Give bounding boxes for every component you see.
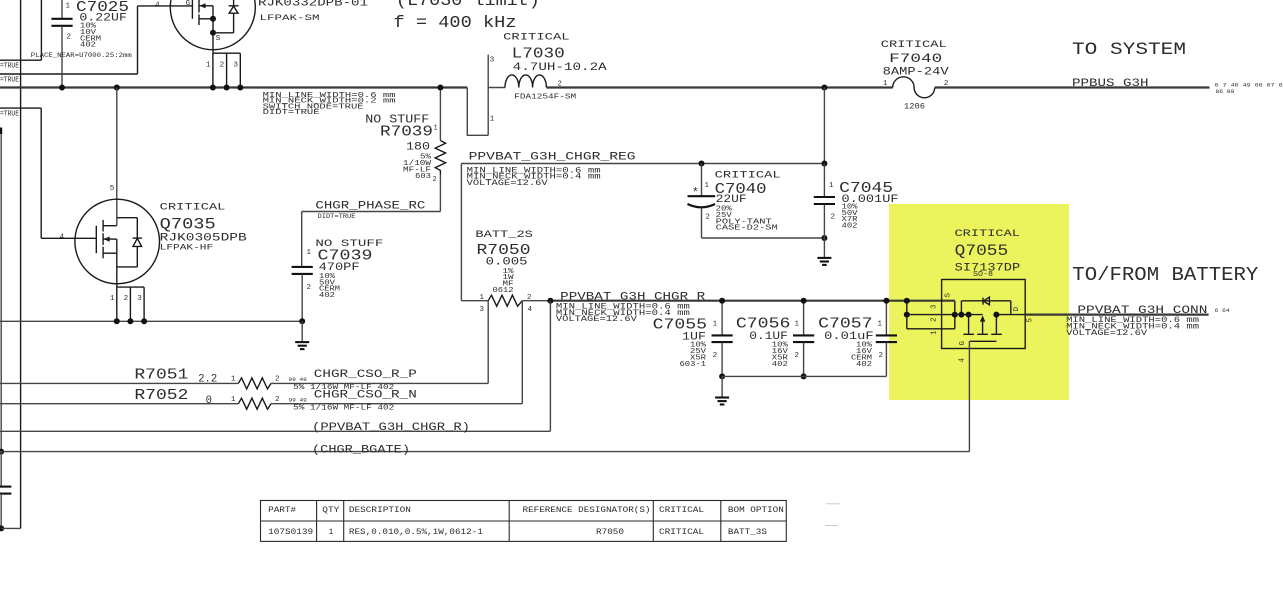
svg-text:CRITICAL: CRITICAL [659, 528, 704, 537]
Q7030 channel bar [198, 0, 200, 13]
junction dot C7056-bottom [801, 373, 807, 379]
junction dot diode-branch [958, 312, 964, 318]
Q7055 source bus [955, 314, 983, 316]
long vertical wire from top edge [20, 0, 22, 528]
wire PPBUS_G3H [935, 86, 1210, 88]
svg-text:PPVBAT_G3H_CHGR_REG: PPVBAT_G3H_CHGR_REG [469, 152, 636, 164]
svg-text:1: 1 [829, 182, 834, 190]
fuse F7040 [893, 77, 935, 98]
svg-text:Q7035: Q7035 [160, 216, 216, 234]
svg-text:CASE-D2-SM: CASE-D2-SM [716, 225, 779, 233]
svg-text:R7039: R7039 [380, 123, 433, 140]
junction dot Q7030 pin3 [237, 85, 243, 91]
Q7035 body stub with arrow [103, 238, 117, 240]
svg-text:Q7055: Q7055 [955, 242, 1009, 260]
wire (CHGR_BGATE) [0, 451, 969, 453]
junction dot C7040-REG [699, 161, 705, 167]
ghost mark 1 [826, 503, 840, 505]
svg-text:CRITICAL: CRITICAL [955, 228, 1021, 239]
Q7030 source vertical [212, 6, 214, 53]
L7030 coil [505, 75, 546, 88]
capacitor (clipped at left edge) [0, 452, 2, 487]
off-page stub (=TRUE tag 3) to Q7035 gate [0, 107, 41, 109]
capacitor C7025 [61, 0, 63, 18]
svg-text:3: 3 [137, 295, 142, 303]
wire PPVBAT_G3H_CHGR_REG [823, 88, 825, 164]
svg-text:PPBUS_G3H: PPBUS_G3H [1072, 78, 1149, 90]
Q7035 gate bar [95, 226, 97, 254]
Q7055 channel bar [963, 333, 974, 335]
Q7055 body box [942, 280, 1026, 349]
svg-text:402: 402 [319, 292, 335, 300]
junction dot Q7055 pin2 [904, 312, 910, 318]
svg-text:BOM OPTION: BOM OPTION [728, 506, 784, 515]
svg-text:2: 2 [275, 396, 280, 404]
Q7055 gate bar [970, 340, 997, 342]
svg-text:4: 4 [155, 1, 160, 9]
table frame [261, 501, 787, 542]
svg-text:4: 4 [60, 233, 65, 241]
capacitor C7055 [721, 301, 723, 335]
svg-text:D: D [1013, 307, 1021, 312]
svg-text:G: G [959, 341, 967, 346]
svg-text:LFPAK-SM: LFPAK-SM [260, 13, 320, 23]
svg-text:2: 2 [931, 317, 939, 322]
svg-text:2: 2 [527, 294, 532, 302]
svg-text:1: 1 [931, 330, 939, 335]
svg-text:CRITICAL: CRITICAL [160, 202, 226, 213]
svg-text:2: 2 [706, 213, 711, 221]
wire PPVBAT_G3H_CHGR_R [550, 300, 954, 302]
off-page connector fragment [0, 128, 2, 135]
svg-text:402: 402 [842, 223, 858, 231]
Q7055 mosfet stubs [968, 315, 970, 334]
svg-text:5% 1/16W MF-LF 402: 5% 1/16W MF-LF 402 [293, 404, 394, 412]
svg-text:2: 2 [433, 176, 437, 184]
svg-text:0612: 0612 [493, 287, 514, 295]
junction dot Q7035 pin1 [114, 318, 120, 324]
wire PPVBAT_G3H_CONN [1025, 314, 1208, 316]
svg-text:1: 1 [878, 320, 883, 328]
Q7055 drain wire [996, 314, 1025, 316]
svg-text:2: 2 [124, 295, 129, 303]
svg-text:DIDT=TRUE: DIDT=TRUE [263, 109, 321, 117]
svg-text:LFPAK-HF: LFPAK-HF [160, 245, 214, 253]
capacitor C7045 [823, 164, 825, 197]
junction dot C7055-top [719, 298, 725, 304]
junction dot C7025-bus [59, 85, 65, 91]
Q7055 body arrow [980, 315, 985, 321]
svg-text:f = 400 kHz: f = 400 kHz [394, 14, 517, 33]
svg-text:CHGR_CSO_R_P: CHGR_CSO_R_P [314, 369, 417, 381]
svg-text:F7040: F7040 [889, 51, 942, 66]
svg-text:VOLTAGE=12.6V: VOLTAGE=12.6V [556, 315, 637, 324]
svg-text:CHGR_CSO_R_N: CHGR_CSO_R_N [314, 390, 417, 402]
svg-text:2: 2 [831, 213, 836, 221]
capacitor C7039 [292, 266, 313, 268]
wire bus to Q7035 drain [116, 88, 118, 226]
svg-text:PART#: PART# [268, 506, 296, 515]
capacitor C7040 (polarized) [701, 164, 703, 196]
svg-text:S: S [945, 293, 953, 298]
svg-text:=TRUE: =TRUE [0, 77, 19, 85]
Q7035 source stub [103, 252, 117, 254]
wire PPBUS to fuse [546, 86, 892, 88]
svg-text:1: 1 [795, 320, 800, 328]
svg-text:CRITICAL: CRITICAL [881, 39, 947, 50]
svg-text:RES,0.010,0.5%,1W,0612-1: RES,0.010,0.5%,1W,0612-1 [349, 528, 483, 537]
svg-text:99 49: 99 49 [289, 376, 307, 383]
svg-text:TO/FROM BATTERY: TO/FROM BATTERY [1072, 264, 1259, 286]
svg-text:(PPVBAT_G3H_CHGR_R): (PPVBAT_G3H_CHGR_R) [312, 422, 470, 434]
svg-text:402: 402 [856, 361, 872, 369]
transistor Q7035 circle [75, 199, 160, 284]
capacitor C7056 [803, 301, 805, 335]
wire CHGR_BGATE stub from connector [0, 134, 2, 452]
svg-text:86 89: 86 89 [1216, 89, 1235, 95]
Q7030 junction dot diode [210, 30, 216, 36]
wire (PPVBAT_G3H_CHGR_R) [0, 430, 550, 432]
svg-text:R7051: R7051 [134, 367, 188, 384]
svg-text:0: 0 [206, 395, 212, 407]
R7050 pin4 lead [521, 301, 523, 404]
svg-text:6 64: 6 64 [1215, 308, 1230, 314]
svg-text:S: S [216, 35, 221, 43]
svg-text:RJK0332DPB-01: RJK0332DPB-01 [258, 0, 368, 9]
junction dot Q7035 pin3 [141, 318, 147, 324]
wire caps bottom [722, 375, 886, 377]
ground C7039 [301, 321, 303, 342]
Q7035 drain stub [103, 225, 117, 227]
svg-text:2.2: 2.2 [198, 374, 217, 386]
svg-text:1: 1 [231, 376, 236, 384]
junction dot C7039-bottom [299, 318, 305, 324]
svg-text:1: 1 [480, 294, 485, 302]
svg-text:DIDT=TRUE: DIDT=TRUE [318, 213, 356, 220]
svg-text:VOLTAGE=12.6V: VOLTAGE=12.6V [1066, 329, 1147, 338]
svg-text:1: 1 [705, 182, 710, 190]
junction dot Q7055 pin3 [904, 298, 910, 304]
svg-text:TO SYSTEM: TO SYSTEM [1072, 40, 1186, 60]
svg-text:CHGR_PHASE_RC: CHGR_PHASE_RC [315, 201, 426, 213]
L7030 pin leads vertical [487, 55, 489, 136]
svg-text:CRITICAL: CRITICAL [503, 32, 570, 43]
svg-text:*: * [692, 186, 699, 200]
ground C7055 [721, 376, 723, 397]
junction dot Q7035-bus [114, 85, 120, 91]
svg-text:=TRUE: =TRUE [0, 111, 19, 119]
wire bottom-left corner [1, 527, 20, 529]
svg-text:22UF: 22UF [716, 194, 747, 206]
svg-text:C7057: C7057 [818, 316, 873, 333]
junction dot chgr_r-down [547, 298, 553, 304]
svg-text:8AMP-24V: 8AMP-24V [883, 66, 949, 78]
highlight box [889, 204, 1069, 400]
svg-text:1: 1 [110, 295, 115, 303]
wire Q7035 source row [0, 320, 302, 322]
Q7035 channel bar [102, 220, 104, 232]
svg-text:5: 5 [1027, 318, 1035, 323]
wire CHGR_HIGATE to Q7030 gate [0, 73, 138, 75]
svg-text:180: 180 [406, 142, 430, 154]
junction dot C7045-branch [821, 85, 827, 91]
svg-text:1: 1 [713, 320, 718, 328]
resistor R7050 (4-terminal) [461, 300, 488, 302]
svg-text:G: G [186, 0, 191, 8]
Q7030 pins bracket [213, 52, 240, 54]
transistor Q7030 circle [170, 0, 255, 50]
svg-text:(L7030 limit): (L7030 limit) [396, 0, 540, 10]
junction dot Q7030 pin2 [224, 85, 230, 91]
svg-text:PLACE_NEAR=U7000.25:2mm: PLACE_NEAR=U7000.25:2mm [31, 52, 132, 59]
Q7035 body diode [117, 217, 138, 219]
svg-text:3: 3 [233, 61, 238, 69]
svg-text:1: 1 [490, 116, 495, 124]
svg-text:1: 1 [66, 3, 71, 11]
resistor R7039 [439, 88, 441, 141]
Q7035 pins bracket [117, 286, 144, 288]
svg-text:107S0139: 107S0139 [268, 528, 313, 537]
svg-text:CRITICAL: CRITICAL [715, 170, 781, 181]
junction dot C7045-bottom [821, 235, 827, 241]
svg-text:=TRUE: =TRUE [0, 63, 19, 71]
svg-text:4: 4 [528, 306, 533, 314]
svg-text:1: 1 [883, 80, 888, 88]
inductor L7030 jog wire [467, 88, 488, 136]
svg-text:2: 2 [795, 352, 800, 360]
wire switch node bus [0, 86, 467, 88]
svg-text:C7056: C7056 [736, 316, 791, 333]
svg-text:CRITICAL: CRITICAL [659, 506, 704, 515]
Q7055 body diode [982, 298, 984, 305]
svg-text:SO-8: SO-8 [973, 271, 993, 279]
svg-text:0.005: 0.005 [486, 257, 528, 269]
Q7055 gate lead [968, 341, 970, 451]
svg-text:2: 2 [713, 352, 718, 360]
svg-text:2: 2 [275, 376, 280, 384]
junction dot C7056-top [801, 298, 807, 304]
svg-text:3: 3 [480, 306, 485, 314]
junction dot source stub [966, 312, 972, 318]
svg-text:BATT_2S: BATT_2S [475, 230, 533, 241]
junction dot bottom-left [0, 525, 4, 531]
svg-text:3: 3 [490, 57, 495, 65]
junction dot C7055-bottom [719, 373, 725, 379]
junction dot R7039-bus [437, 85, 443, 91]
junction dot BGATE-left [0, 449, 4, 455]
svg-text:1: 1 [434, 124, 438, 132]
svg-text:(CHGR_BGATE): (CHGR_BGATE) [312, 444, 410, 456]
wire CHGR_PHASE_RC [302, 211, 441, 213]
svg-text:3: 3 [931, 304, 939, 309]
svg-text:QTY: QTY [322, 506, 339, 515]
ghost mark 2 [825, 525, 838, 527]
svg-text:1: 1 [231, 396, 236, 404]
L7030 lead to coil [488, 87, 505, 89]
capacitor C7057 [885, 301, 887, 335]
junction dot S-join [952, 312, 958, 318]
svg-text:2: 2 [307, 284, 312, 292]
svg-text:1: 1 [329, 528, 334, 537]
Q7055 source bracket [906, 301, 908, 329]
svg-text:DESCRIPTION: DESCRIPTION [349, 506, 411, 515]
junction dot REG-right [821, 161, 827, 167]
svg-text:1: 1 [206, 61, 211, 69]
Q7030 junction dot source [210, 16, 216, 22]
Q7030 gate bar [191, 0, 193, 19]
svg-text:5: 5 [110, 185, 115, 193]
resistor R7051 [0, 382, 238, 384]
svg-text:BATT_3S: BATT_3S [728, 528, 767, 537]
Q7055 diode branch [960, 301, 962, 315]
off-page stub (=TRUE tag 1) [0, 59, 41, 61]
svg-text:2: 2 [67, 34, 72, 42]
svg-text:VOLTAGE=12.6V: VOLTAGE=12.6V [467, 179, 548, 188]
svg-text:99 49: 99 49 [289, 396, 307, 403]
junction dot drain stub [993, 312, 999, 318]
svg-text:RJK0305DPB: RJK0305DPB [160, 233, 248, 245]
wire C7040 bottom [702, 237, 825, 239]
svg-text:402: 402 [80, 42, 96, 50]
svg-text:L7030: L7030 [512, 46, 565, 63]
Q7030 body diode [233, 0, 235, 6]
svg-text:1206: 1206 [904, 103, 925, 112]
Q7030 source stub [199, 18, 213, 20]
junction dot C7057-top [883, 298, 889, 304]
svg-text:402: 402 [772, 361, 788, 369]
junction dot Q7035 pin2 [127, 318, 133, 324]
resistor R7052 [0, 403, 238, 405]
svg-text:2: 2 [879, 352, 884, 360]
svg-text:R7052: R7052 [134, 387, 188, 404]
ground C7045 [817, 257, 831, 259]
svg-text:603-1: 603-1 [680, 361, 707, 369]
R7050 pin3 lead [487, 301, 489, 384]
svg-text:4.7UH-10.2A: 4.7UH-10.2A [513, 62, 607, 74]
junction dot Q7030 pin1 [210, 85, 216, 91]
svg-text:REFERENCE DESIGNATOR(S): REFERENCE DESIGNATOR(S) [523, 506, 651, 515]
svg-text:603: 603 [415, 173, 431, 181]
svg-text:FDA1254F-SM: FDA1254F-SM [514, 93, 576, 101]
svg-text:R7050: R7050 [596, 528, 624, 537]
Q7030 body stub with arrow [199, 5, 213, 7]
svg-text:4: 4 [959, 358, 967, 363]
svg-text:1: 1 [307, 249, 312, 257]
svg-text:2: 2 [220, 61, 225, 69]
svg-text:6 7 40 49 66 67 6: 6 7 40 49 66 67 6 [1215, 82, 1283, 88]
Q7035 source vertical [116, 239, 118, 287]
